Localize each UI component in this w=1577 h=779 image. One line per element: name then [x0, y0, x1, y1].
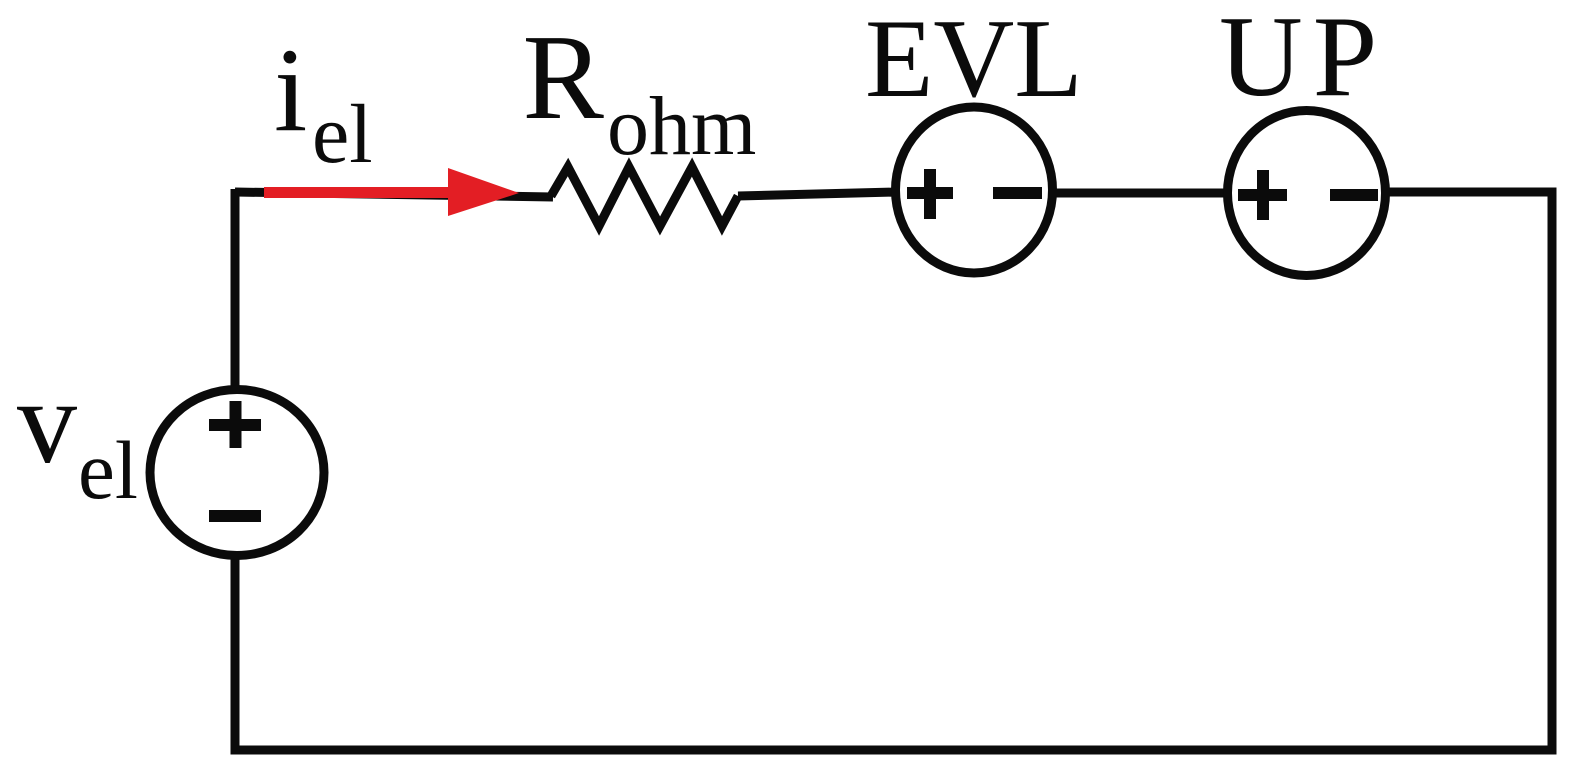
wire right vertical — [1548, 188, 1557, 751]
wire UP to top-right corner — [1384, 188, 1552, 197]
EVL plus sign — [907, 169, 953, 219]
svg-text:el: el — [78, 424, 138, 516]
voltage source UP circle — [1228, 111, 1386, 276]
voltage source v_el circle — [150, 390, 324, 556]
svg-text:UP: UP — [1219, 0, 1387, 121]
resistor R_ohm zigzag — [551, 167, 738, 226]
wire top horizontal (left corner to resistor) — [235, 192, 553, 197]
v_el minus sign — [209, 510, 261, 522]
wire bottom horizontal — [235, 746, 1557, 755]
svg-text:v: v — [17, 355, 77, 488]
wire left vertical (bottom corner up to source v_el) — [231, 553, 240, 755]
wire EVL to UP source — [1051, 189, 1229, 198]
UP minus sign — [1330, 189, 1378, 201]
svg-text:i: i — [274, 23, 307, 156]
voltage source EVL circle — [896, 107, 1053, 273]
v_el plus sign — [209, 401, 261, 448]
current arrow i_el (red) — [264, 168, 519, 216]
svg-text:ohm: ohm — [607, 80, 756, 173]
wire resistor to EVL source — [738, 192, 897, 196]
UP plus sign — [1238, 170, 1287, 220]
EVL minus sign — [993, 187, 1042, 199]
svg-text:el: el — [312, 88, 373, 181]
svg-text:R: R — [523, 10, 605, 145]
wire left vertical (top corner down to source v_el) — [231, 189, 240, 392]
svg-text:EVL: EVL — [865, 0, 1083, 121]
